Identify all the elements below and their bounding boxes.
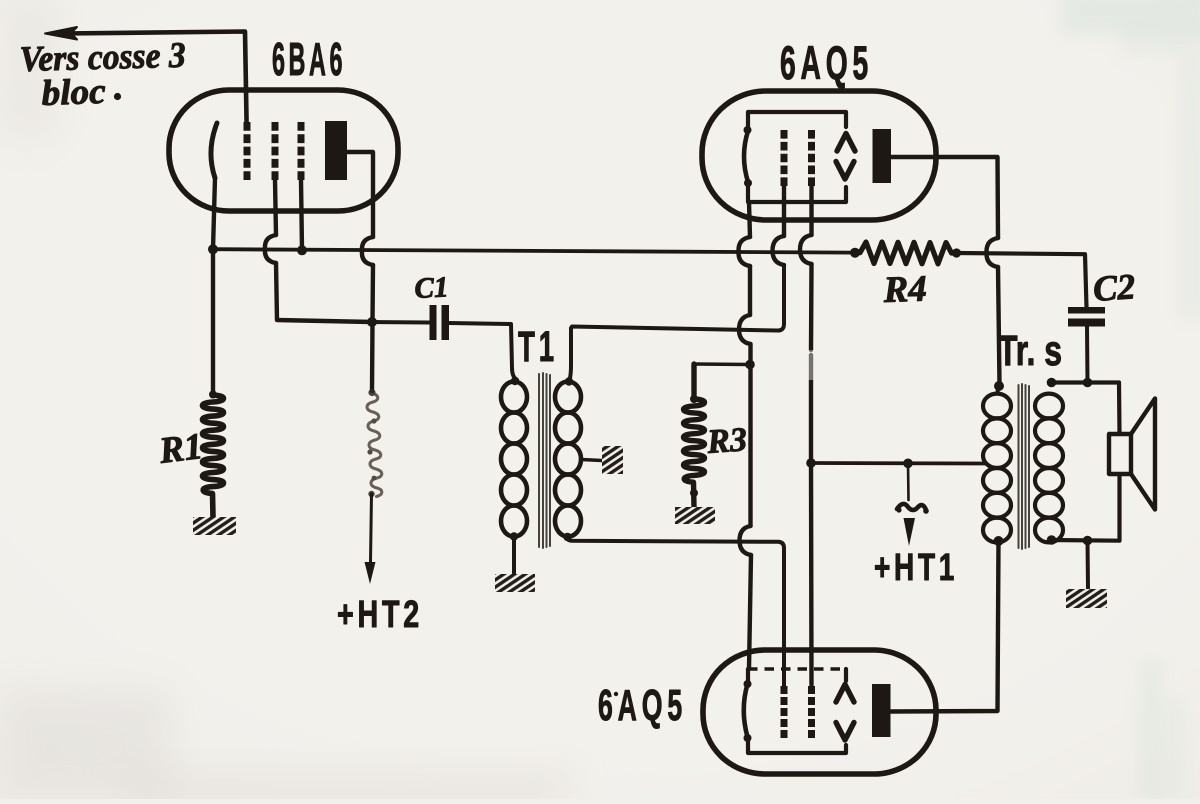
junction node: primary bottom <box>994 536 1004 546</box>
resistor: +HT2 dropping squiggle <box>367 389 382 497</box>
ground below R1 <box>193 517 236 535</box>
junction node: C2 ground side <box>1083 536 1093 546</box>
ground at T1 secondary tap <box>602 446 623 474</box>
svg-text:+HT2: +HT2 <box>337 594 423 636</box>
speaker LS <box>1109 399 1155 510</box>
tube U1 grid g1 (dashed) <box>244 122 251 180</box>
wire: T1 secondary top to U2 grid <box>569 265 784 382</box>
wire: U1 cathode down to R1 <box>213 178 215 393</box>
capacitor C2 <box>1068 307 1105 327</box>
transformer T1 secondary winding <box>555 377 581 541</box>
wire: C2 to output node <box>1085 327 1090 383</box>
junction node: anode / C1 / screen <box>367 317 377 327</box>
transformer Tr.s primary winding <box>983 394 1011 543</box>
ground below R3 <box>675 507 715 524</box>
tube U2 screen g2 (dashed) <box>808 130 815 186</box>
junction node: primary top <box>994 381 1004 391</box>
wire: input arrow to cosse 3 <box>45 27 247 124</box>
tube U3 grid g1 (dashed) <box>781 686 788 738</box>
node label: Vers cosse 3 bloc <box>19 35 186 113</box>
wire: T1 secondary bottom to U3 grid <box>567 537 784 686</box>
junction node: R3 on cathode line <box>745 360 755 370</box>
wire: +HT1 line to Tr.s primary centre <box>811 461 985 465</box>
wire: secondary loop top rail <box>1052 383 1120 435</box>
tube U3 screen g2 (dashed) <box>808 686 815 738</box>
wire: U2 cathode down to U3 (with hops) <box>738 202 751 669</box>
wire: T1 primary bottom to ground <box>512 536 516 574</box>
tube U2 anode plate <box>873 129 892 183</box>
wire: U1 g3 to AVC bus <box>301 180 302 250</box>
junction node: C2 output <box>1083 378 1093 388</box>
ground below T1 primary <box>495 574 535 592</box>
tube U2 grid g1 (dashed) <box>781 130 788 186</box>
resistor R4 <box>850 242 961 264</box>
svg-text:Tr. s: Tr. s <box>998 327 1062 375</box>
wire: U2 screen down to U3 screen <box>800 186 815 685</box>
svg-text:bloc: bloc <box>41 71 106 113</box>
transformer Tr.s core <box>1019 384 1030 549</box>
wire: U1 anode lead to +HT2 branch <box>347 152 373 391</box>
tube U2 6AQ5 envelope <box>702 91 936 220</box>
svg-text:R4: R4 <box>882 269 928 312</box>
wire: ground stem <box>1086 541 1091 590</box>
wire: T1 secondary centre tap <box>581 460 602 461</box>
resistor R1 <box>203 391 224 518</box>
transformer Tr.s secondary winding <box>1035 394 1063 543</box>
tube U1 6BA6 envelope <box>169 90 398 211</box>
wire: U1 g2 screen down and right to anode node <box>265 180 372 322</box>
junction node: screen / +HT1 feed <box>806 458 816 468</box>
svg-text:C1: C1 <box>414 271 449 305</box>
tube U1 grid g2 (dashed) <box>272 122 279 180</box>
junction node: cathode on bus <box>208 244 218 254</box>
wire: primary stubs <box>997 386 999 542</box>
wire and arrow: +HT1 <box>896 463 928 546</box>
junction node: g3 on bus <box>297 245 307 255</box>
svg-text:6AQ5: 6AQ5 <box>780 36 873 89</box>
tube U2 internal box and cathode <box>744 112 847 202</box>
junction node: secondary bottom <box>1047 535 1057 545</box>
svg-text:C2: C2 <box>1092 266 1137 309</box>
wire: secondary loop bottom rail <box>1052 474 1120 541</box>
tube U1 anode plate <box>325 121 347 180</box>
svg-text:6AQ5: 6AQ5 <box>598 681 687 730</box>
transformer T1 core <box>539 373 550 548</box>
tube U3 anode plate <box>872 684 891 737</box>
transformer T1 primary winding <box>501 377 527 541</box>
tube U2 beam plates <box>836 134 855 180</box>
junction node: +HT1 tap <box>903 459 913 469</box>
tube U3 beam plates <box>836 685 854 741</box>
tube U1 cathode <box>211 123 217 178</box>
wire: U2 anode to Tr.s primary top <box>891 157 1000 384</box>
tube U1 grid g3 (dashed) <box>298 122 305 180</box>
tube U1 6BA6 label <box>272 33 346 85</box>
svg-text:T1: T1 <box>518 323 558 371</box>
tube U3 internal box and cathode <box>744 669 847 753</box>
tube U3 6AQ5 envelope <box>703 650 936 774</box>
junction node: secondary top <box>1047 378 1057 388</box>
wire: C1 to T1 primary <box>449 323 517 380</box>
wire: squiggle to +HT2 arrow <box>365 494 376 584</box>
wire: U3 anode up to primary bottom <box>890 541 999 712</box>
svg-text:+HT1: +HT1 <box>874 547 958 589</box>
wire: AVC bus line <box>213 249 1087 307</box>
svg-text:R3: R3 <box>705 421 748 461</box>
ground below speaker loop <box>1066 589 1107 608</box>
capacitor C1 <box>430 305 450 340</box>
resistor R3 <box>684 364 750 507</box>
svg-text:R1: R1 <box>156 426 205 472</box>
svg-text:6BA6: 6BA6 <box>272 33 346 85</box>
wire: anode node to C1 <box>372 320 429 325</box>
